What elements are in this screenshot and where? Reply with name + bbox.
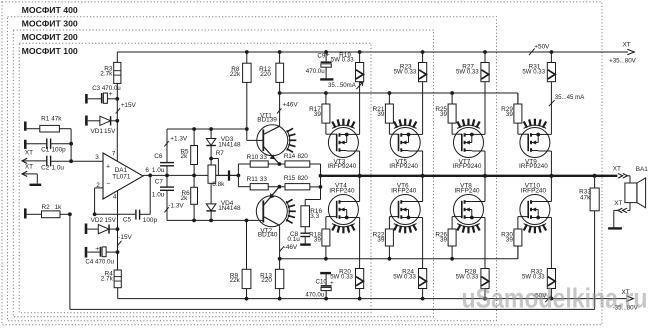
svg-text:IRFP240: IRFP240 [454,188,480,195]
svg-text:R14: R14 [284,153,296,160]
wire VT5 drain to output rail [409,150,423,152]
svg-text:35...50mA: 35...50mA [328,82,357,89]
svg-text:C7: C7 [155,179,164,186]
svg-text:C1: C1 [41,146,50,153]
svg-text:5W 0.33: 5W 0.33 [522,273,545,280]
capacitor C5 100p feedback [95,213,136,215]
wire R14 to output [310,163,321,165]
wire R15 to output riser [310,186,321,188]
svg-text:2.7k: 2.7k [100,71,113,78]
wire VT8 drain from output rail [484,176,486,202]
tick +15V [116,108,120,113]
resistor R15 820 [285,184,310,190]
svg-text:R7: R7 [216,150,225,157]
svg-text:5W 0.33: 5W 0.33 [522,68,545,75]
wire R12 to VT1 collector [279,82,281,126]
resistor R29 39 [517,93,519,104]
svg-text:1.0u: 1.0u [52,165,65,172]
transistor VT8 IRFP240 [454,195,484,225]
svg-text:470.0u: 470.0u [306,68,325,75]
connector arrow XT input ground [22,171,27,176]
svg-text:100p: 100p [52,146,67,153]
capacitor C7 1.0u [166,175,168,187]
resistor R12 220 [279,52,281,63]
wire VT1 base [247,139,263,141]
svg-text:IRFP9240: IRFP9240 [328,163,357,170]
svg-text:2k: 2k [181,153,189,160]
svg-text:+: + [326,52,330,59]
resistor R8 22k [246,52,248,63]
wire VT4 drain from output rail [359,176,361,202]
wire pin 2 [95,187,103,189]
resistor R28 5W 0.33 [481,269,489,289]
tick +46V [277,108,281,113]
resistor R10 33 [238,163,250,165]
tick 35...45 mA arrow [549,100,555,106]
transistor VT4 IRFP240 [328,195,358,225]
svg-text:+: + [330,280,334,287]
heatsink VT2 [286,201,289,222]
wire -50V rail [118,298,627,300]
svg-text:IRFP240: IRFP240 [391,188,417,195]
svg-text:R10: R10 [247,154,259,161]
svg-text:IRFP9240: IRFP9240 [519,163,548,170]
resistor R11 33 [238,186,250,188]
svg-text:2.7k: 2.7k [101,275,114,282]
resistor R31 5W 0.33 [550,52,552,63]
svg-text:-15V: -15V [118,234,132,241]
connector pin bar for R2 [24,208,27,218]
svg-text:IRFP9240: IRFP9240 [453,163,482,170]
svg-text:1.0u: 1.0u [152,192,165,199]
capacitor C2 1.0u [46,156,48,167]
svg-text:C4 470.0u: C4 470.0u [85,258,114,265]
wire feedback return line (bottom) [70,308,595,310]
svg-text:C10: C10 [316,278,328,285]
ground C9 [320,78,333,80]
resistor R3 2.7k [116,52,118,62]
resistor R17 39 [324,91,328,95]
zener diode VD1 15V [88,120,100,122]
wire VT6 drain from output rail [422,176,424,202]
svg-text:39: 39 [377,111,385,118]
ground Zobel [300,243,311,245]
wire R21 to gate [388,123,390,134]
transistor VT6 IRFP240 [390,195,420,225]
transistor VT7 IRFP9240 [454,128,484,158]
svg-text:1.0u: 1.0u [152,167,165,174]
tick +1.3V [164,141,168,146]
wire R10/R11 junction to op-amp [237,164,239,187]
svg-text:6.8k: 6.8k [212,181,225,188]
trimmer tap bar [228,170,230,180]
svg-text:15V: 15V [105,217,117,224]
wire to speaker + [627,175,630,177]
transistor VT9 IRFP9240 [520,128,550,158]
capacitor C4 470.0u polarized [87,251,99,253]
svg-text:220: 220 [261,277,272,284]
svg-text:0.1u: 0.1u [287,236,300,243]
connector pin bar for C3 [85,94,88,104]
resistor R24 5W 0.33 [419,269,427,289]
svg-text:3.3: 3.3 [310,213,319,220]
svg-text:1k: 1k [55,204,63,211]
frame MOSFIT 200 (dashed border) [13,30,433,317]
wire R8 to VT1 base [246,82,248,140]
wire pin4 column [117,191,119,270]
svg-text:МОСФИТ 300: МОСФИТ 300 [22,19,78,29]
svg-text:1N4148: 1N4148 [218,205,241,212]
svg-text:39: 39 [440,111,448,118]
svg-text:МОСФИТ 200: МОСФИТ 200 [22,32,78,42]
svg-text:МОСФИТ 100: МОСФИТ 100 [22,46,78,56]
tick -15V [117,241,121,246]
svg-text:+15V: +15V [121,102,137,109]
svg-text:5W 0.33: 5W 0.33 [394,68,417,75]
connector arrow XT input signal [22,158,27,163]
resistor R21 39 [388,91,392,95]
resistor R32 5W 0.33 [547,269,555,289]
svg-text:39: 39 [440,236,448,243]
frame MOSFIT 300 (dashed border) [8,17,497,321]
resistor R14 820 [285,161,310,167]
svg-text:−: − [106,180,110,187]
wire R33 to feedback line [594,211,596,310]
resistor R26 39 [451,217,453,229]
transistor VT5 IRFP9240 [390,128,420,158]
svg-text:VD1: VD1 [91,128,104,135]
connector pin bar for VD2 [85,224,88,235]
wire VT10 source to R32 [538,217,551,219]
heatsink VT4 [332,224,355,227]
resistor R33 47k feedback [593,174,597,178]
wire +50V rail [117,51,628,53]
capacitor C6 1.0u [166,129,168,163]
wire R7 to VD4 [210,183,212,204]
svg-text:BD139: BD139 [257,116,277,123]
wire R19 to VT3 source [359,82,361,135]
connector pin bar for C4 [85,247,88,258]
resistor R9 22k [246,220,248,269]
svg-text:R15: R15 [284,175,296,182]
connector pin bar for C1 [24,140,27,149]
svg-text:100p: 100p [143,217,158,224]
resistor R16 3.3 (Zobel) [305,199,320,201]
node input (+) vertical [70,129,72,162]
wire to output ground [614,209,618,211]
wire VT6 source to R24 [409,217,423,219]
resistor R20 5W 0.33 [356,269,364,289]
wire op-amp output [143,174,238,176]
resistor R5 2k [193,129,195,146]
heatsink VT7 [457,125,480,128]
wire R25 to gate [451,123,453,134]
wire output rail (thick) [321,175,618,177]
op-amp DA1 TL071 [103,153,143,199]
svg-text:4: 4 [113,193,117,200]
node +15V [115,97,119,101]
ground output [608,227,622,229]
svg-text:R11: R11 [247,176,259,183]
resistor R4 2.7k [114,270,121,288]
diode VD3 1N4148 [210,129,212,139]
svg-text:5W 0.33: 5W 0.33 [456,68,479,75]
arrowhead XT -50V rail [626,296,633,302]
heatsink VT6 [394,224,417,227]
wire -1.3V rail [167,219,263,221]
tick -1.3V [164,207,168,212]
svg-text:BA1: BA1 [636,166,649,173]
svg-text:C5: C5 [123,216,132,223]
svg-text:+: + [106,163,110,170]
wire speaker - to connector [629,203,631,211]
svg-text:3: 3 [95,154,99,161]
wire VT4 source to R20 [347,217,360,219]
capacitor C3 470.0u polarized [88,98,101,100]
heatsink VT1 [287,130,290,151]
node feedback junction [68,212,72,216]
wire top gate bus [280,92,518,94]
wire VT7 drain to output rail [472,150,485,152]
tick +50V [529,48,535,55]
svg-text:XT: XT [623,42,631,49]
node bottom gate bus start [278,257,282,261]
svg-text:XT: XT [613,165,621,172]
capacitor C9 470.0u [325,52,327,62]
wire R27 to VT7 source [484,82,486,135]
svg-text:IRFP240: IRFP240 [329,188,355,195]
svg-text:XT: XT [614,200,622,207]
trimmer R7 6.8k [208,165,216,183]
svg-text:-1.3V: -1.3V [168,203,184,210]
svg-text:39: 39 [506,236,514,243]
wire +15V to pin 7 [116,121,118,162]
svg-text:33: 33 [260,176,268,183]
resistor R1 47k [27,128,40,130]
wire R7 wiper [211,158,218,160]
heatsink VT5 [394,125,417,128]
resistor R6 2k [193,175,195,187]
svg-text:22k: 22k [230,277,241,284]
transistor VT2 BD140 [256,196,287,227]
resistor R22 39 [388,217,390,229]
node VT2 emitter [278,185,282,189]
resistor R25 39 [450,91,454,95]
wire R17 to gate [325,123,327,134]
tick -50V [545,295,551,302]
resistor R30 39 [517,217,519,229]
svg-text:IRFP9240: IRFP9240 [389,163,418,170]
wire pin 3 input [71,160,103,162]
svg-text:C6: C6 [154,153,163,160]
wire VT2 collector [279,225,281,269]
svg-text:7: 7 [112,151,116,158]
wire +1.3V rail [167,128,247,130]
svg-text:47k: 47k [51,116,62,123]
svg-text:35...45 mA: 35...45 mA [555,94,585,101]
resistor R13 220 [275,269,283,288]
svg-text:+: + [109,91,113,98]
heatsink VT10 [524,224,547,227]
svg-text:15V: 15V [104,128,116,135]
wire R23 to VT5 source [422,82,424,135]
resistor R2 1k [27,213,42,215]
svg-text:39: 39 [314,111,322,118]
connector pin bar for VD1 [85,116,88,126]
zener diode VD2 15V [87,228,98,230]
tick -46V [280,246,284,251]
wire to input ground [36,174,38,184]
svg-text:39: 39 [506,111,514,118]
arrowhead XT +50V rail [627,49,634,55]
wire feedback node down [69,214,71,309]
resistor R19 5W 0.33 [359,52,361,63]
resistor R23 5W 0.33 [422,52,424,63]
svg-text:-46V: -46V [284,244,298,251]
wire bottom gate bus [280,258,518,260]
svg-text:5W 0.33: 5W 0.33 [456,273,479,280]
svg-text:39: 39 [314,236,322,243]
svg-text:22k: 22k [230,71,241,78]
wire VT3 drain to output rail [347,150,360,152]
wire VT1 emitter node [268,163,285,165]
svg-text:39: 39 [377,236,385,243]
svg-text:VD2: VD2 [91,217,104,224]
svg-text:uSamodelkina.ru: uSamodelkina.ru [462,283,648,314]
svg-text:BD140: BD140 [258,232,278,239]
node VT1 emitter [278,162,282,166]
svg-text:220: 220 [260,71,271,78]
svg-text:5W 0.33: 5W 0.33 [393,273,416,280]
svg-text:+46V: +46V [283,102,299,109]
wire R31 to VT9 source [550,82,552,135]
svg-text:C3 470.0u: C3 470.0u [92,85,121,92]
transistor VT3 IRFP9240 [328,128,358,158]
svg-text:5W 0.33: 5W 0.33 [330,273,353,280]
svg-text:6: 6 [145,167,149,174]
svg-text:C2: C2 [41,165,50,172]
svg-text:820: 820 [298,175,309,182]
transistor VT1 BD139 [257,125,288,156]
connector pin bar for R1 [24,122,27,131]
tick 35...50mA arrow [356,82,362,89]
svg-text:+1.3V: +1.3V [170,135,188,142]
svg-text:XT: XT [25,163,33,170]
wire VT10 drain from output rail [550,176,552,202]
transistor VT10 IRFP240 [520,195,550,225]
svg-text:TL071: TL071 [112,174,131,181]
svg-text:IRFP240: IRFP240 [521,188,547,195]
wire VD3 to R7 [210,146,212,166]
svg-text:R1: R1 [41,116,50,123]
capacitor C8 0.1u (Zobel) [304,227,306,234]
wire VT9 drain to output rail [538,150,551,152]
wire VT8 source to R28 [472,217,485,219]
resistor R27 5W 0.33 [484,52,486,63]
heatsink VT8 [457,224,480,227]
diode VD4 1N4148 [206,204,216,211]
svg-text:+50V: +50V [534,43,550,50]
wire VT2 emitter node [268,186,285,188]
svg-text:1N4148: 1N4148 [218,141,241,148]
resistor R18 39 [325,217,327,229]
svg-text:МОСФИТ 400: МОСФИТ 400 [22,5,78,15]
svg-text:+35...80V: +35...80V [609,58,637,65]
svg-text:33: 33 [260,154,268,161]
svg-text:R2: R2 [42,204,51,211]
node top gate bus start [278,91,282,95]
svg-text:820: 820 [298,153,309,160]
svg-text:5W 0.33: 5W 0.33 [331,56,354,63]
svg-text:C9: C9 [317,53,325,60]
frame MOSFIT 100 (dashed border) [19,43,371,313]
svg-text:47k: 47k [580,195,591,202]
svg-text:470.0u: 470.0u [305,292,324,299]
heatsink VT3 [332,125,355,128]
capacitor C10 470.0u [320,272,331,274]
wire R29 to gate [517,123,519,134]
svg-text:XT: XT [25,150,33,157]
svg-text:+: + [95,246,99,253]
capacitor C1 100p [27,143,47,145]
svg-text:2k: 2k [181,195,189,202]
ground input [30,184,42,186]
heatsink VT9 [524,125,547,128]
